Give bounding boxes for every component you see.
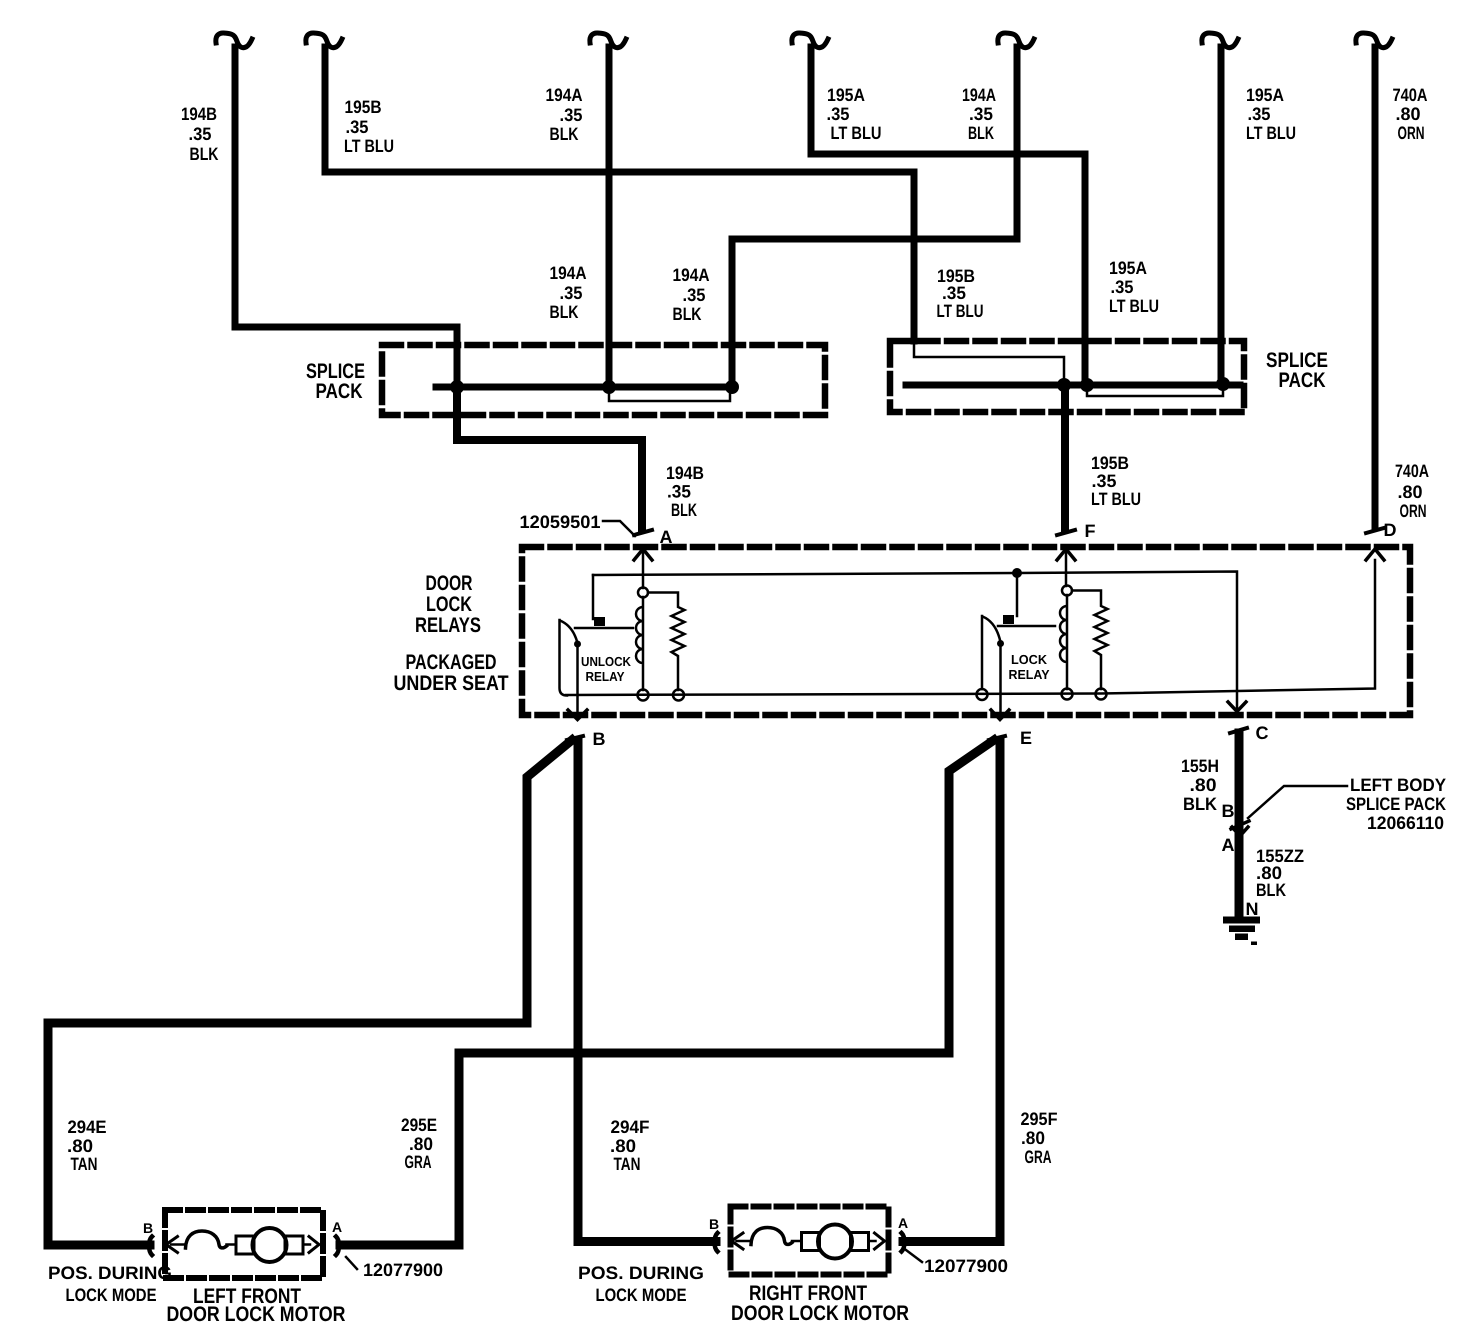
svg-text:LOCK MODE: LOCK MODE [66, 1285, 157, 1305]
junction dot on feed line for lock relay [1012, 568, 1022, 578]
relay box dashed outline DOOR LOCK RELAYS [522, 547, 1410, 715]
svg-text:.35: .35 [346, 117, 369, 137]
right motor pin A male arrow [875, 1233, 885, 1249]
unlock relay coil body [636, 597, 643, 690]
svg-text:BLK: BLK [671, 500, 697, 520]
wire-break squiggle wire 195A top right [1202, 33, 1238, 48]
svg-text:.35: .35 [683, 285, 706, 305]
svg-text:.35: .35 [1092, 471, 1117, 491]
splice junction dot at 457 [450, 380, 464, 394]
svg-text:RELAYS: RELAYS [415, 614, 481, 637]
svg-text:.35: .35 [827, 104, 850, 124]
svg-text:194A: 194A [550, 263, 587, 283]
svg-text:LT BLU: LT BLU [1246, 123, 1296, 143]
svg-text:TAN: TAN [71, 1154, 98, 1174]
lock relay coil body [1060, 595, 1067, 689]
svg-text:LT BLU: LT BLU [344, 136, 394, 156]
unlock relay switch blade [560, 621, 578, 644]
splice junction dot at 1064 [1057, 378, 1071, 392]
svg-text:C: C [1256, 723, 1269, 743]
svg-text:LEFT BODY: LEFT BODY [1350, 775, 1446, 795]
svg-text:PACKAGED: PACKAGED [406, 651, 497, 674]
svg-text:295F: 295F [1021, 1109, 1058, 1129]
left motor brush box left [236, 1236, 254, 1254]
right motor actuator hump [751, 1228, 792, 1245]
svg-text:194B: 194B [181, 104, 217, 124]
splice junction dot at 1223 [1216, 377, 1230, 391]
right motor brush box left [802, 1233, 820, 1251]
wire 195B thin entry inside splice pack 2 [914, 341, 1064, 384]
left motor armature circle [253, 1228, 287, 1262]
pin C connector foot [1230, 728, 1247, 733]
wire 295E pin E to left motor pin A [340, 740, 994, 1245]
pointer to 12077900 left [346, 1257, 357, 1269]
lock relay resistor bottom terminal [1096, 689, 1107, 700]
svg-text:195A: 195A [1109, 258, 1147, 278]
right motor pin B male arrow [732, 1233, 744, 1249]
svg-text:195A: 195A [1246, 85, 1284, 105]
svg-text:LT BLU: LT BLU [831, 123, 882, 143]
svg-text:SPLICE PACK: SPLICE PACK [1346, 794, 1446, 814]
lock relay switch blade [983, 617, 1001, 643]
pointer to 12059501 [603, 521, 635, 536]
wire 295F pin E to right motor pin A [903, 741, 1000, 1242]
wire-break squiggle wire 194A top right [998, 33, 1034, 48]
svg-text:.80: .80 [409, 1134, 433, 1154]
svg-text:.80: .80 [1398, 482, 1423, 502]
pin B connector foot [567, 736, 583, 740]
ground symbol G400 [1223, 917, 1260, 946]
svg-text:D: D [1384, 520, 1397, 540]
wire 194B vertical then to splice pack 1 [235, 47, 457, 386]
svg-text:POS. DURING: POS. DURING [578, 1263, 704, 1283]
pin A lead into unlock relay coil [642, 551, 645, 588]
unlock relay coil bottom terminal [638, 690, 649, 701]
splice pack 1 dashed box [382, 345, 825, 415]
right motor pin A female bracket [902, 1233, 905, 1252]
wire-break squiggle wire 195B top [306, 33, 342, 48]
thin switch feed line across relay box to pin C [593, 572, 1237, 711]
svg-text:PACK: PACK [1279, 369, 1326, 392]
unlock relay fixed contact line [575, 627, 633, 630]
svg-text:DOOR LOCK MOTOR: DOOR LOCK MOTOR [167, 1303, 346, 1326]
splice pack 1 bus bar [436, 384, 733, 391]
wire 155ZZ to ground [1235, 833, 1244, 917]
unlock relay feed drop [592, 575, 595, 619]
lock relay fixed contact line [998, 625, 1055, 628]
lock relay coil bottom terminal [1062, 689, 1073, 700]
svg-text:295E: 295E [401, 1115, 437, 1135]
right motor armature circle [818, 1225, 852, 1259]
svg-text:.35: .35 [667, 482, 691, 502]
svg-text:ORN: ORN [1398, 123, 1425, 143]
svg-text:DOOR: DOOR [426, 572, 473, 595]
svg-text:194A: 194A [962, 85, 996, 105]
wire-break squiggle wire 195A top left [792, 33, 828, 48]
svg-text:195A: 195A [827, 85, 865, 105]
svg-text:.35: .35 [969, 104, 993, 124]
left motor actuator hump [186, 1231, 227, 1248]
pin A chevron [634, 549, 652, 560]
lock relay blade pivot dot [997, 640, 1004, 647]
svg-text:.35: .35 [1248, 104, 1271, 124]
svg-text:.35: .35 [560, 105, 583, 125]
svg-text:194A: 194A [546, 85, 583, 105]
svg-text:195B: 195B [1091, 453, 1129, 473]
lock relay switch bar [981, 616, 984, 689]
svg-text:BLK: BLK [1256, 880, 1286, 900]
unlock relay blade pivot dot [574, 641, 581, 648]
wire-break squiggle wire 740A top [1356, 33, 1392, 48]
svg-text:195B: 195B [345, 97, 382, 117]
svg-text:BLK: BLK [673, 304, 702, 324]
left motor pin A male arrow [309, 1237, 319, 1253]
svg-text:294E: 294E [68, 1117, 107, 1137]
unlock relay output stem to pin B [576, 644, 579, 714]
unlock relay throw contact square [594, 617, 605, 626]
inline splice connector on ground wire [1231, 821, 1249, 829]
right motor brush box right [851, 1233, 869, 1251]
svg-text:RELAY: RELAY [586, 669, 625, 684]
lock relay output stem to pin E [999, 644, 1002, 714]
wire 195A left: down, right, down to splice pack 2 [811, 47, 1085, 383]
svg-text:A: A [660, 527, 673, 547]
wire-break squiggle wire 194B top [216, 33, 252, 48]
wire 195A right straight down to splice pack 2 [1218, 47, 1225, 382]
svg-text:A: A [332, 1219, 342, 1235]
svg-text:.80: .80 [67, 1136, 93, 1156]
pin A connector foot [634, 530, 652, 535]
lock relay resistor [1072, 591, 1108, 690]
svg-text:LOCK: LOCK [1011, 652, 1048, 667]
svg-text:12077900: 12077900 [924, 1256, 1008, 1276]
splice pack 2 bus bar [906, 382, 1240, 389]
wire 195B from splice pack 2 to relay pin F [1061, 385, 1069, 528]
svg-text:740A: 740A [1393, 85, 1428, 105]
svg-text:294F: 294F [611, 1117, 650, 1137]
svg-text:DOOR LOCK MOTOR: DOOR LOCK MOTOR [731, 1302, 909, 1325]
pin B chevron [568, 710, 587, 720]
splice pack 1 thin loop [609, 388, 730, 401]
svg-text:.35: .35 [560, 283, 583, 303]
svg-text:E: E [1020, 728, 1032, 748]
svg-text:.80: .80 [1396, 104, 1421, 124]
lock relay coil top terminal [1062, 586, 1072, 596]
svg-text:B: B [709, 1216, 719, 1232]
svg-text:LT BLU: LT BLU [1109, 296, 1159, 316]
left motor pin B female bracket [149, 1237, 152, 1256]
wire 195B vertical then right to splice pack 2 [325, 47, 914, 341]
splice pack 2 dashed box [890, 341, 1244, 412]
lock relay throw contact square [1003, 615, 1014, 624]
svg-text:LT BLU: LT BLU [937, 301, 984, 321]
svg-text:B: B [1222, 801, 1235, 821]
svg-text:.35: .35 [1111, 277, 1134, 297]
unlock relay switch bar [560, 620, 568, 696]
left motor brush box right [285, 1236, 303, 1254]
svg-text:.35: .35 [189, 124, 212, 144]
svg-text:12059501: 12059501 [520, 512, 601, 532]
svg-text:GRA: GRA [1025, 1147, 1052, 1167]
lock relay switch bar terminal [977, 689, 988, 700]
svg-text:BLK: BLK [190, 144, 219, 164]
svg-text:BLK: BLK [1183, 794, 1217, 814]
svg-text:BLK: BLK [550, 124, 579, 144]
left motor pin A female bracket [336, 1237, 339, 1256]
svg-text:.80: .80 [610, 1136, 636, 1156]
wire 740A straight down to relay box pin D [1372, 47, 1379, 528]
pointer line to LEFT BODY SPLICE PACK label [1248, 786, 1347, 818]
wire 194A straight down to splice pack 1 [606, 47, 613, 386]
pin F chevron [1057, 549, 1075, 560]
wire 294E pin B to left motor pin B [48, 740, 572, 1245]
pin F connector foot [1057, 530, 1075, 535]
pin D connector foot [1366, 528, 1384, 533]
wire-break squiggle wire 194A top [590, 33, 626, 48]
wire 194A right: down, left, down to splice pack 1 [732, 47, 1017, 386]
svg-text:.80: .80 [1021, 1128, 1045, 1148]
left front door lock motor dashed box [165, 1210, 323, 1278]
svg-text:A: A [898, 1215, 908, 1231]
svg-text:LT BLU: LT BLU [1091, 489, 1141, 509]
svg-text:12066110: 12066110 [1367, 813, 1444, 833]
right motor pin B female bracket [715, 1233, 718, 1252]
svg-text:.35: .35 [942, 283, 966, 303]
splice junction dot at 1087 [1080, 378, 1094, 392]
svg-text:N: N [1246, 899, 1259, 919]
svg-text:POS. DURING: POS. DURING [48, 1263, 172, 1283]
pin C chevron [1228, 702, 1246, 712]
svg-text:F: F [1085, 521, 1096, 541]
svg-text:BLK: BLK [550, 302, 579, 322]
relay common bus to pin D [566, 560, 1375, 695]
wire 294F pin B to right motor pin B [578, 741, 716, 1242]
svg-text:194B: 194B [666, 463, 704, 483]
splice junction dot at 732 [725, 380, 739, 394]
pointer to 12077900 right [906, 1250, 922, 1262]
left motor pin B male arrow [166, 1237, 178, 1253]
svg-text:12077900: 12077900 [363, 1260, 443, 1280]
pin D chevron [1366, 549, 1384, 560]
svg-text:RELAY: RELAY [1009, 667, 1050, 682]
splice pack 2 thin loop [1087, 386, 1223, 396]
svg-text:PACK: PACK [316, 380, 363, 403]
svg-text:GRA: GRA [405, 1152, 432, 1172]
splice junction dot at 609 [602, 380, 616, 394]
svg-text:B: B [143, 1220, 153, 1236]
svg-text:194A: 194A [673, 265, 710, 285]
svg-text:A: A [1222, 835, 1235, 855]
pin F lead into lock relay coil [1065, 551, 1068, 586]
svg-text:LOCK: LOCK [426, 593, 472, 616]
right front door lock motor dashed box [731, 1207, 889, 1275]
pin E connector foot [989, 736, 1005, 740]
svg-text:B: B [593, 729, 606, 749]
lock relay feed drop [1016, 573, 1019, 616]
svg-text:UNLOCK: UNLOCK [581, 654, 632, 669]
wire 194B from splice pack 1 to relay pin A [457, 387, 642, 528]
svg-text:ORN: ORN [1400, 501, 1427, 521]
svg-text:155H: 155H [1181, 756, 1219, 776]
unlock relay resistor bottom terminal [673, 690, 684, 701]
svg-text:LOCK MODE: LOCK MODE [596, 1285, 687, 1305]
unlock relay coil top terminal [638, 588, 648, 598]
unlock relay resistor [648, 593, 685, 691]
svg-text:740A: 740A [1395, 461, 1429, 481]
svg-text:UNDER SEAT: UNDER SEAT [394, 672, 509, 695]
pin E chevron [991, 710, 1009, 720]
svg-text:BLK: BLK [968, 123, 994, 143]
wire 155H pin C to body splice [1235, 733, 1244, 826]
svg-text:.80: .80 [1190, 775, 1217, 795]
svg-text:TAN: TAN [614, 1154, 641, 1174]
